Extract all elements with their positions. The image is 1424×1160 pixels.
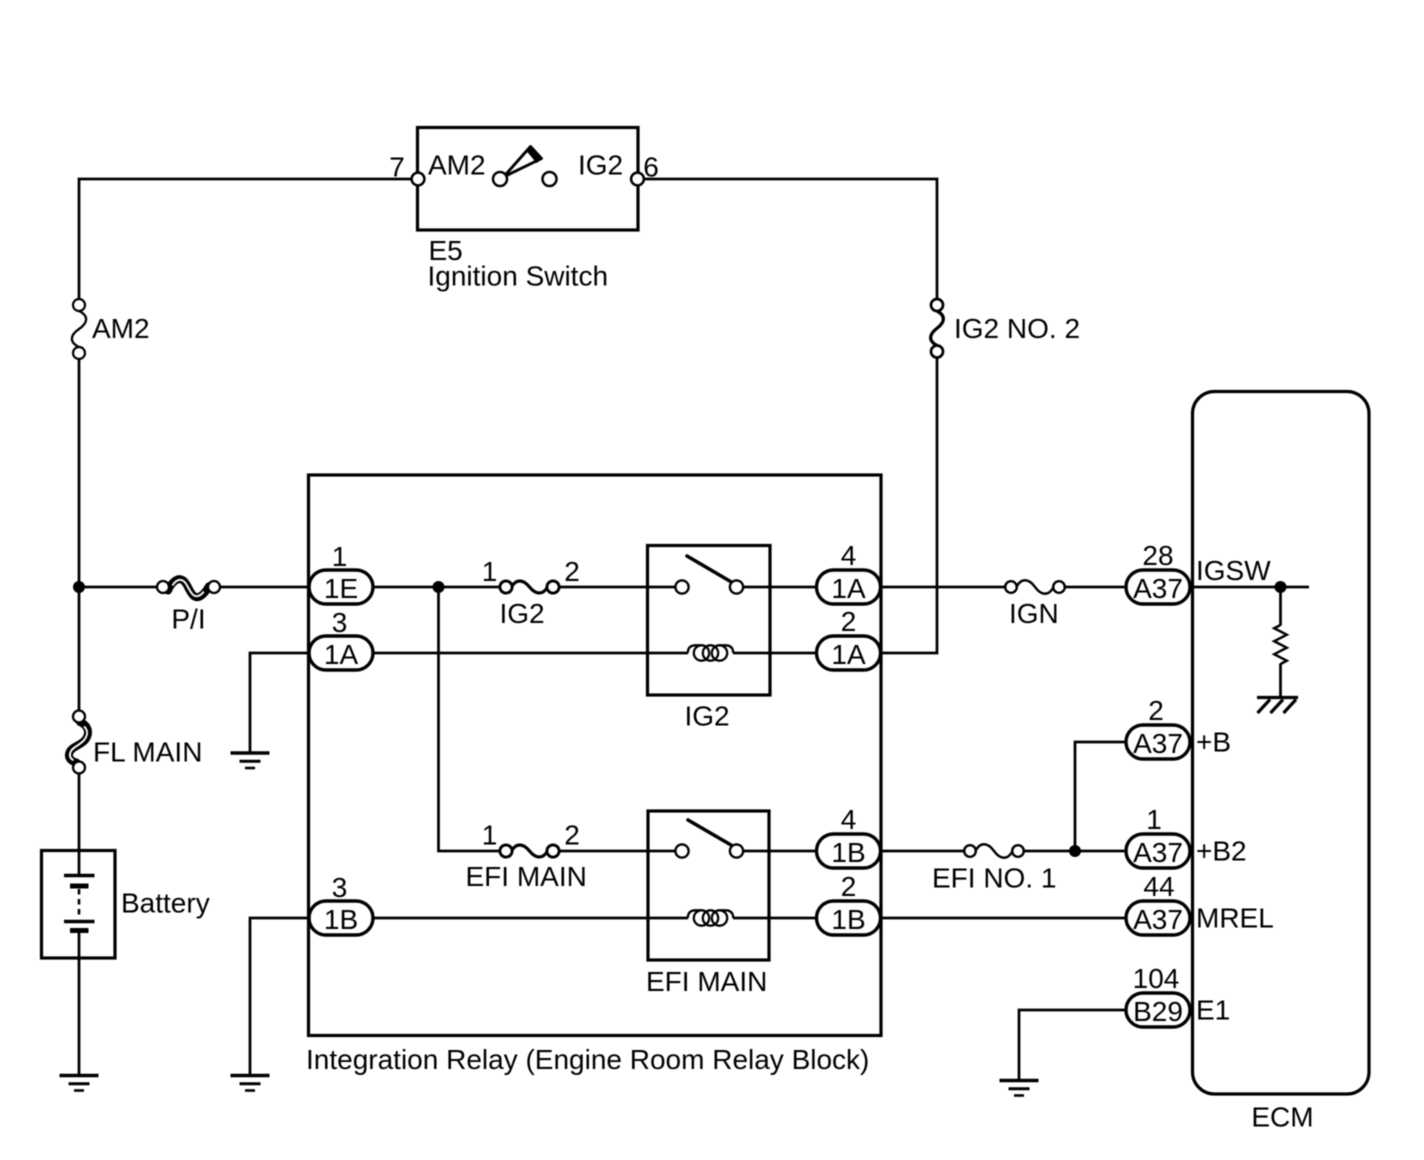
relay EFI MAIN contact right [730, 844, 743, 857]
ignition switch E5 box [418, 128, 639, 231]
battery plate short bottom [70, 928, 89, 933]
svg-text:IG2: IG2 [500, 598, 545, 629]
fuse EFI NO. 1 [976, 844, 1013, 858]
wire battery negative to ground [78, 930, 81, 1075]
svg-text:AM2: AM2 [428, 150, 486, 181]
wire ignition switch pin 6 to IG2 NO. 2 fuse [638, 179, 937, 300]
svg-text:MREL: MREL [1196, 903, 1274, 934]
terminal 1A pin 3 [309, 636, 373, 670]
wire battery feed: top-left from ignition switch pin 7 down left side [79, 179, 418, 300]
battery box [42, 851, 116, 959]
svg-text:3: 3 [332, 607, 348, 638]
svg-text:44: 44 [1143, 871, 1174, 902]
relay EFI MAIN switch blade [688, 820, 731, 845]
svg-text:A37: A37 [1133, 573, 1183, 604]
wire IGN fuse to ECM terminal A37-28 [1064, 586, 1128, 589]
svg-text:Ignition Switch: Ignition Switch [428, 261, 609, 292]
node +B/+B2 branch junction [1069, 845, 1081, 857]
terminal A37 pin 1 (+B2) [1126, 834, 1190, 868]
svg-text:1A: 1A [324, 639, 359, 670]
relay IG2 contact left [675, 580, 688, 593]
wire branch junction down to EFI MAIN fuse row [439, 587, 502, 851]
terminal 1A pin 4 [817, 570, 881, 604]
svg-text:IG2: IG2 [578, 150, 623, 181]
svg-text:ECM: ECM [1251, 1102, 1313, 1133]
terminal A37 pin 44 (MREL) [1126, 901, 1190, 935]
wire junction up to ECM terminal A37-2 (+B) [1075, 742, 1128, 851]
svg-text:1B: 1B [831, 837, 865, 868]
relay EFI MAIN contact left [675, 844, 688, 857]
svg-text:EFI MAIN: EFI MAIN [646, 966, 767, 997]
svg-text:E1: E1 [1196, 995, 1230, 1026]
svg-text:A37: A37 [1133, 837, 1183, 868]
terminal 1A pin 2 [817, 636, 881, 670]
svg-text:6: 6 [643, 152, 659, 183]
wire terminal 1B(4) to EFI NO. 1 fuse [878, 850, 965, 853]
svg-text:B29: B29 [1133, 996, 1183, 1027]
svg-text:2: 2 [841, 871, 857, 902]
svg-text:1B: 1B [831, 904, 865, 935]
ignition switch key lever [504, 147, 542, 178]
relay IG2 switch blade [687, 556, 731, 582]
svg-text:4: 4 [841, 540, 857, 571]
wire IG2 relay contact to terminal 1A(4) [743, 586, 821, 589]
svg-text:2: 2 [841, 606, 857, 637]
wire ECM terminal B29-104 (E1) to ground [1019, 1010, 1128, 1080]
wire EFI NO. 1 fuse to ECM terminal A37-1 [1023, 850, 1128, 853]
svg-text:IG2: IG2 [685, 701, 730, 732]
svg-text:P/I: P/I [171, 604, 205, 635]
wire AM2 fuse to junction [78, 358, 81, 712]
wire relay row 1E to IG2 fuse [373, 586, 501, 589]
terminal A37 pin 28 (IGSW) [1126, 570, 1190, 604]
battery plate short [70, 884, 89, 889]
svg-text:1E: 1E [324, 573, 358, 604]
ignition switch terminal pin 6 [631, 173, 644, 186]
terminal 1B pin 2 [817, 901, 881, 935]
relay IG2 coil [688, 645, 702, 653]
wire P/I to relay terminal 1E [217, 586, 310, 589]
ground E1 [1000, 1079, 1039, 1082]
ignition switch contact AM2 [493, 172, 507, 186]
ground for 1B(3) [231, 1074, 270, 1077]
wire EFI MAIN relay coil to ECM terminal A37-44 (MREL) [733, 917, 1128, 920]
battery dashed center [78, 889, 81, 919]
wire junction to P/I fusible link [79, 586, 160, 589]
svg-text:A37: A37 [1133, 728, 1183, 759]
wire IG2 NO. 2 fuse down to relay terminal 1A(2) [879, 356, 937, 653]
ignition switch terminal pin 7 [412, 173, 425, 186]
svg-text:A37: A37 [1133, 904, 1183, 935]
ignition switch contact IG2 [543, 172, 557, 186]
wire terminal 1B(3) to ground elbow [250, 918, 341, 1075]
svg-text:1: 1 [1146, 804, 1162, 835]
wire IG2 relay coil to terminal 1A(2) [733, 652, 820, 655]
svg-text:1A: 1A [831, 573, 866, 604]
svg-text:+B2: +B2 [1196, 836, 1247, 867]
svg-text:1: 1 [332, 541, 348, 572]
wire FL MAIN to battery [78, 772, 81, 851]
ground for 1A(3) [231, 751, 270, 754]
terminal 1E pin 1 [309, 570, 373, 604]
svg-text:+B: +B [1196, 727, 1231, 758]
resistor IGSW pull-down [1274, 625, 1287, 664]
ground IGSW resistor (body ground) [1257, 696, 1298, 699]
svg-text:EFI NO. 1: EFI NO. 1 [932, 863, 1056, 894]
svg-text:IG2 NO. 2: IG2 NO. 2 [954, 313, 1080, 344]
wire IGSW to internal pull-down resistor [1190, 586, 1309, 589]
terminal 1B pin 4 [817, 834, 881, 868]
svg-text:IGSW: IGSW [1196, 555, 1271, 586]
svg-text:IGN: IGN [1009, 598, 1059, 629]
svg-text:104: 104 [1133, 963, 1180, 994]
wire terminal 1A(3) to ground elbow [250, 653, 341, 753]
terminal 1B pin 3 [309, 901, 373, 935]
relay EFI MAIN box [648, 811, 769, 960]
fusible link FL MAIN [69, 722, 88, 763]
node IGSW resistor junction [1275, 581, 1287, 593]
fuse IGN [1017, 580, 1054, 594]
svg-text:3: 3 [332, 872, 348, 903]
svg-text:1B: 1B [324, 904, 358, 935]
fuse EFI MAIN (relay internal) [512, 845, 548, 857]
node battery feed junction [73, 581, 85, 593]
svg-text:AM2: AM2 [92, 313, 150, 344]
fuse IG2 NO. 2 [931, 311, 944, 346]
wire terminal 1A(4) to IGN fuse [878, 586, 1006, 589]
svg-text:4: 4 [841, 804, 857, 835]
svg-text:7: 7 [389, 152, 405, 183]
terminal A37 pin 2 (+B) [1126, 725, 1190, 759]
svg-text:Battery: Battery [121, 888, 210, 919]
svg-text:1: 1 [482, 556, 498, 587]
wire coil row 1B(3) to EFI MAIN relay coil [373, 917, 688, 920]
battery internal wire top [78, 850, 81, 874]
svg-text:2: 2 [564, 820, 580, 851]
node IG2/EFI branch junction [433, 581, 445, 593]
relay EFI MAIN coil [688, 910, 702, 918]
svg-text:Integration Relay (Engine Room: Integration Relay (Engine Room Relay Blo… [306, 1044, 869, 1075]
wire EFI MAIN relay contact to terminal 1B(4) [743, 850, 821, 853]
relay IG2 contact right [730, 580, 743, 593]
wire EFI MAIN fuse to EFI MAIN relay contact [558, 850, 676, 853]
svg-text:28: 28 [1142, 540, 1173, 571]
battery plate long (-) [64, 920, 95, 923]
wire IG2 fuse to relay IG2 switch contact [558, 586, 676, 589]
svg-text:1: 1 [482, 820, 498, 851]
fuse IG2 (relay internal) [512, 581, 548, 593]
battery plate long (+) [64, 874, 95, 877]
relay IG2 box [648, 546, 771, 696]
svg-text:2: 2 [1148, 695, 1164, 726]
ground battery [60, 1074, 99, 1077]
fuse AM2 [72, 311, 86, 347]
svg-text:2: 2 [564, 556, 580, 587]
fusible link P/I [168, 579, 209, 597]
wire coil row 1A(3) to IG2 relay coil [373, 652, 688, 655]
svg-text:1A: 1A [831, 639, 866, 670]
terminal B29 pin 104 (E1) [1126, 993, 1190, 1027]
integration relay block box [309, 475, 882, 1036]
svg-text:FL MAIN: FL MAIN [93, 737, 202, 768]
svg-text:EFI MAIN: EFI MAIN [466, 861, 587, 892]
ECM box [1193, 392, 1370, 1095]
